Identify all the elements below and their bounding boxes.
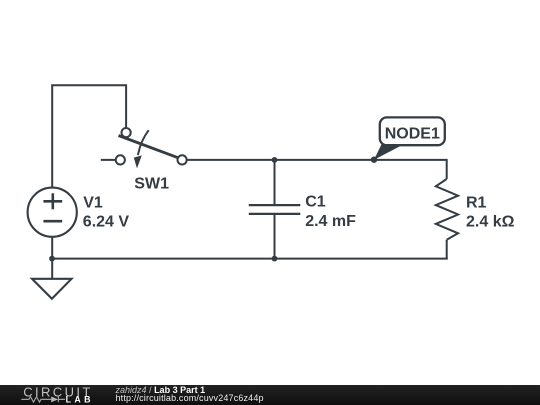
svg-text:LAB: LAB bbox=[66, 395, 94, 405]
svg-text:6.24 V: 6.24 V bbox=[83, 213, 130, 230]
svg-text:NODE1: NODE1 bbox=[385, 126, 440, 143]
svg-text:2.4 kΩ: 2.4 kΩ bbox=[466, 214, 515, 231]
SW1 actuation arc bbox=[138, 130, 149, 155]
svg-text:C1: C1 bbox=[305, 194, 326, 211]
C1 top lead bbox=[274, 160, 276, 204]
SW1 left terminal bbox=[116, 155, 125, 164]
SW1 left stub wire bbox=[101, 159, 116, 161]
C1 bottom lead bbox=[274, 215, 276, 259]
svg-text:SW1: SW1 bbox=[134, 176, 169, 193]
SW1 arrow head bbox=[134, 155, 142, 168]
wire: down to SW1 top terminal bbox=[125, 84, 127, 128]
junction dot: bottom at V1 bbox=[49, 256, 55, 262]
SW1 top terminal bbox=[122, 128, 131, 137]
junction dot: bottom at C1 bbox=[272, 256, 278, 262]
junction dot: top node at C1 bbox=[272, 157, 278, 163]
wire: ground drop bbox=[51, 259, 53, 279]
node NODE1 flag bbox=[371, 117, 445, 162]
svg-text:V1: V1 bbox=[83, 194, 103, 211]
logo resistor-diode squiggle bbox=[21, 397, 51, 402]
wire: V1 bottom lead to bottom net bbox=[51, 237, 53, 258]
switch SW1 bbox=[101, 128, 187, 168]
voltage source V1 bbox=[28, 188, 77, 237]
SW1 blade bbox=[119, 136, 178, 158]
ground bbox=[32, 279, 72, 299]
svg-text:R1: R1 bbox=[466, 194, 487, 211]
SW1 right terminal bbox=[178, 155, 187, 164]
wire: R1 top lead from node bbox=[446, 159, 448, 179]
capacitor C1 bbox=[249, 160, 300, 259]
R1 zigzag bbox=[436, 179, 458, 240]
footer bar bbox=[0, 385, 540, 405]
logo diode bbox=[51, 397, 58, 403]
wire: top horizontal to switch column bbox=[51, 84, 126, 86]
C1 bottom plate bbox=[249, 213, 300, 215]
CircuitLab logo bbox=[0, 385, 110, 405]
NODE1 pointer tail bbox=[374, 145, 403, 160]
C1 top plate bbox=[249, 204, 300, 206]
NODE1 anchor dot bbox=[371, 157, 377, 163]
R1 bottom lead bbox=[446, 240, 448, 260]
NODE1 box bbox=[380, 117, 445, 145]
resistor R1 bbox=[436, 179, 458, 259]
svg-text:2.4 mF: 2.4 mF bbox=[305, 213, 356, 230]
wire: bottom horizontal net bbox=[52, 258, 448, 260]
wire: SW1 right terminal to R1 column (node wire) bbox=[187, 159, 447, 161]
wire: V1 top to top-left corner up bbox=[51, 85, 53, 188]
footer credits text bbox=[116, 386, 264, 402]
